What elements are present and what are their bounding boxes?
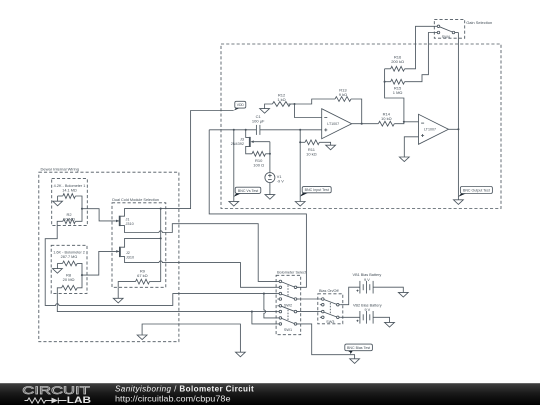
svg-text:http://circuitlab.com/cbpu78e: http://circuitlab.com/cbpu78e: [115, 395, 231, 404]
wire bus left end down to bolometer select common: [209, 130, 306, 287]
wire SW1 pole2 common to BNC bias test: [297, 324, 355, 359]
svg-text:VB1 Bias Battery: VB1 Bias Battery: [353, 273, 382, 277]
wire to op-amp2 - input: [404, 121, 419, 123]
svg-text:9 V: 9 V: [364, 278, 370, 282]
wire op-amp2 + input to ground: [404, 137, 418, 157]
wire VB1 to ground: [373, 287, 403, 292]
node R11 tap on bus: [299, 129, 301, 131]
resistor R15 1 Mohm: [385, 33, 436, 95]
wire junction to J1 gate: [82, 209, 116, 221]
ground (R11): [326, 145, 336, 150]
ground (VB2): [385, 322, 395, 327]
flag BNC Vs Test: [234, 187, 261, 197]
wire gate-R10-V1 vertical: [269, 142, 271, 173]
wire R8 left lead down to bolometer select (long): [57, 288, 252, 312]
op-amp U1 LT1007: [322, 109, 352, 139]
op-amp U2 LT1007: [419, 114, 449, 144]
node R10/gate/V1 junction: [269, 153, 271, 155]
wire R15/R16 junction down to op-amp2 - input: [385, 69, 404, 122]
switch SW2 DPDT bolometer select: [277, 280, 298, 307]
flag BNC Input Test: [300, 187, 331, 197]
svg-text:LT1007: LT1007: [327, 122, 339, 126]
battery VB1 Bias Battery 9V: [353, 273, 382, 293]
svg-text:BNC Input Test: BNC Input Test: [305, 188, 329, 192]
svg-text:LT1007: LT1007: [424, 128, 436, 132]
wire drain bus vertical to R9: [160, 209, 162, 282]
node BNC Vs tap on bus: [233, 129, 235, 131]
voltage source V1 -9V: [265, 173, 284, 184]
svg-text:200 kΩ: 200 kΩ: [391, 59, 404, 64]
svg-text:J310: J310: [126, 255, 134, 259]
transistor J2 J310 n-JFET: [116, 238, 161, 262]
svg-text:J2: J2: [126, 251, 130, 255]
svg-text:J310: J310: [126, 222, 134, 226]
flag BNC Bias Test: [345, 344, 373, 354]
ground (op-amp2 +): [399, 157, 409, 162]
wire SW1 pole1 common to SW3: [297, 311, 320, 313]
bolometer 1 resistor 14.1 Mohm: [58, 194, 76, 202]
svg-text:100 µF: 100 µF: [252, 118, 265, 123]
resistor R13 9 kohm: [335, 88, 351, 102]
wire input bus (left of C1): [209, 129, 256, 131]
wire SW3 pole1 to VB1: [341, 287, 360, 305]
svg-text:BNC Vs Test: BNC Vs Test: [238, 189, 258, 193]
wire R8 right lead to junction: [77, 275, 82, 288]
svg-text:1 kΩ: 1 kΩ: [277, 97, 285, 102]
svg-text:BNC Output Test: BNC Output Test: [463, 188, 490, 192]
svg-text:10 kΩ: 10 kΩ: [381, 116, 392, 121]
enclosure Bolometer Select (dashed box): [276, 271, 307, 335]
switch SW4 SPDT gain select: [436, 25, 459, 39]
svg-text:1.6K - Bolometer 2: 1.6K - Bolometer 2: [53, 251, 85, 255]
svg-text:-9 V: -9 V: [277, 179, 284, 183]
node op-amp2 - input junction: [403, 121, 405, 123]
battery VB2 Bias Battery 9V: [353, 303, 382, 323]
svg-text:SW3: SW3: [326, 320, 334, 324]
resistor R9 67 kohm: [118, 269, 161, 299]
wire J1 source to SW2 throw (with hop): [159, 224, 277, 282]
wire SW3 pole2 to VB2: [341, 316, 360, 318]
svg-text:10 kΩ: 10 kΩ: [306, 151, 317, 156]
wire R2 right lead to junction: [75, 209, 82, 222]
svg-text:1 MΩ: 1 MΩ: [393, 90, 403, 95]
wire J2 source to SW2 throw (with hop): [159, 261, 277, 287]
wire bolometer1 to junction: [75, 196, 82, 209]
wire feedback to R13: [295, 99, 336, 104]
svg-text:Sanityisboring / Bolometer Cir: Sanityisboring / Bolometer Circuit: [115, 384, 254, 393]
svg-text:9 V: 9 V: [364, 308, 370, 312]
wire SW2 pole2 common to SW3: [297, 298, 320, 300]
svg-text:J3: J3: [240, 138, 244, 142]
wire dewar shield ground to lower ground: [142, 324, 240, 352]
wire VDD to drain bus: [161, 111, 234, 209]
wire junction to J2 gate: [82, 251, 116, 275]
resistor R12 1 kohm: [265, 93, 295, 109]
svg-text:SW2: SW2: [284, 303, 292, 307]
wire R8 junction to SW1 pole2 bottom throw: [252, 312, 278, 324]
ground (R12): [260, 109, 270, 114]
node bolometer1/R2 junction: [81, 208, 83, 210]
svg-text:VDD: VDD: [237, 103, 245, 107]
node op-amp1 output: [361, 123, 363, 125]
wire BNC Vs test drop: [233, 130, 235, 202]
resistor R14 10 kohm: [378, 112, 404, 127]
wire output bus vertical: [457, 33, 459, 200]
ground (BNC Input Test): [295, 202, 305, 207]
svg-text:Bias On/Off: Bias On/Off: [319, 289, 340, 293]
resistor R16 200 kohm: [385, 26, 436, 71]
svg-text:Dual Cold Module Selection: Dual Cold Module Selection: [112, 198, 159, 202]
ground (shield bottom): [236, 352, 246, 357]
svg-text:20 MΩ: 20 MΩ: [63, 277, 75, 282]
svg-text:BNC Bias Test: BNC Bias Test: [347, 346, 370, 350]
enclosure Dewar Internal Wiring (dashed box): [39, 167, 179, 342]
flag VDD: [234, 101, 246, 110]
enclosure 1.6K - Bolometer 2 (dashed box): [51, 245, 87, 293]
wire V1 to ground: [269, 183, 271, 195]
svg-text:VB2 Bias Battery: VB2 Bias Battery: [353, 303, 382, 307]
node J3 drain tap on bus: [245, 129, 247, 131]
svg-text:14.1 MΩ: 14.1 MΩ: [62, 189, 77, 193]
svg-text:Gain Selection: Gain Selection: [466, 20, 492, 25]
wire VB2 to ground: [373, 317, 389, 322]
svg-text:2N4392: 2N4392: [231, 142, 244, 146]
wire R2 left lead down to bolometer select (long): [45, 221, 277, 305]
flag BNC Output Test: [458, 187, 492, 197]
wire junction down to op-amp1 - input: [295, 104, 322, 118]
svg-text:Dewar Internal Wiring: Dewar Internal Wiring: [41, 167, 79, 172]
node R11 tee: [299, 141, 301, 143]
switch SW3 DPST bias on/off: [320, 298, 341, 324]
svg-text:4.2K - Bolometer 1: 4.2K - Bolometer 1: [54, 184, 86, 188]
svg-text:287.7 MΩ: 287.7 MΩ: [61, 255, 78, 259]
node R8 wire junction: [251, 311, 253, 313]
ground (VB1): [398, 292, 408, 297]
svg-text:LAB: LAB: [67, 395, 92, 405]
ground (R9): [113, 298, 123, 303]
node J2 drain junction: [160, 237, 162, 239]
resistor R11 10 kohm: [300, 140, 330, 156]
enclosure Dual Cold Module Selection (dashed box): [112, 198, 166, 287]
enclosure Gain Selection (dashed box): [434, 19, 492, 38]
node R12/feedback junction: [293, 103, 295, 105]
svg-text:10 MΩ: 10 MΩ: [63, 216, 75, 221]
wire op-amp1 output to R14: [352, 123, 379, 125]
logo CIRCUIT LAB: [22, 385, 91, 405]
transistor J3 2N4392 n-JFET current source: [231, 130, 270, 154]
svg-text:V1: V1: [277, 175, 282, 179]
svg-text:Bolometer Select: Bolometer Select: [277, 271, 307, 275]
ground (BNC Vs Test): [229, 201, 239, 206]
enclosure Bias On/Off (dashed box): [318, 289, 343, 324]
wire BNC input test drop: [299, 130, 301, 202]
transistor J1 J310 n-JFET: [116, 209, 161, 233]
ground (bolometer 2): [53, 269, 63, 274]
ground (bolometer 1): [53, 201, 63, 206]
resistor R10 100 ohm: [252, 151, 270, 167]
ground (dewar shield): [137, 335, 147, 340]
wire R13 to output node: [351, 99, 362, 124]
wire SW2 pole2 throw to SW1 pole2 top throw (with hop): [264, 294, 278, 318]
ground (BNC Output Test): [454, 200, 464, 205]
enclosure main amplifier board (dashed box): [221, 44, 501, 209]
ground (BNC Bias Test): [350, 359, 360, 364]
node op-amp2 output: [457, 128, 459, 130]
node SW2 pole2 throw junction: [263, 293, 265, 295]
svg-text:SW4: SW4: [442, 35, 450, 39]
resistor R8 20 Mohm: [62, 272, 78, 290]
svg-text:SW1: SW1: [284, 328, 292, 332]
enclosure 4.2K - Bolometer 1 (dashed box): [52, 179, 88, 226]
bolometer 2 resistor 287.7 Mohm: [57, 261, 77, 269]
wire bolometer2 to junction: [77, 263, 82, 275]
svg-text:J1: J1: [126, 217, 130, 221]
node R15/R16 left junction: [384, 81, 386, 83]
switch SW1 DPDT bolometer select: [277, 305, 298, 332]
node J1 drain / VDD junction: [160, 208, 162, 210]
capacitor C1 100uF: [252, 114, 265, 135]
svg-text:9 kΩ: 9 kΩ: [339, 92, 347, 97]
svg-text:67 kΩ: 67 kΩ: [137, 273, 148, 278]
wire op-amp2 output: [449, 128, 459, 130]
wire bus (right of C1) to op-amp + input: [260, 129, 322, 131]
resistor R2 10 Mohm: [63, 212, 76, 224]
node bolometer2/R8 junction: [81, 274, 83, 276]
ground (V1): [265, 195, 275, 200]
svg-text:100 Ω: 100 Ω: [253, 162, 264, 167]
